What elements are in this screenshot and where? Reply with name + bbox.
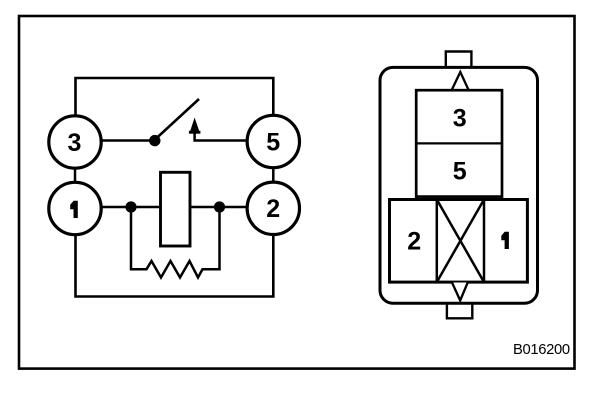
- svg-text:B016200: B016200: [513, 342, 570, 358]
- svg-text:3: 3: [453, 104, 467, 132]
- svg-text:5: 5: [266, 129, 280, 157]
- svg-text:3: 3: [68, 129, 82, 157]
- svg-text:5: 5: [453, 158, 467, 186]
- svg-text:2: 2: [266, 195, 280, 223]
- svg-text:2: 2: [407, 228, 421, 256]
